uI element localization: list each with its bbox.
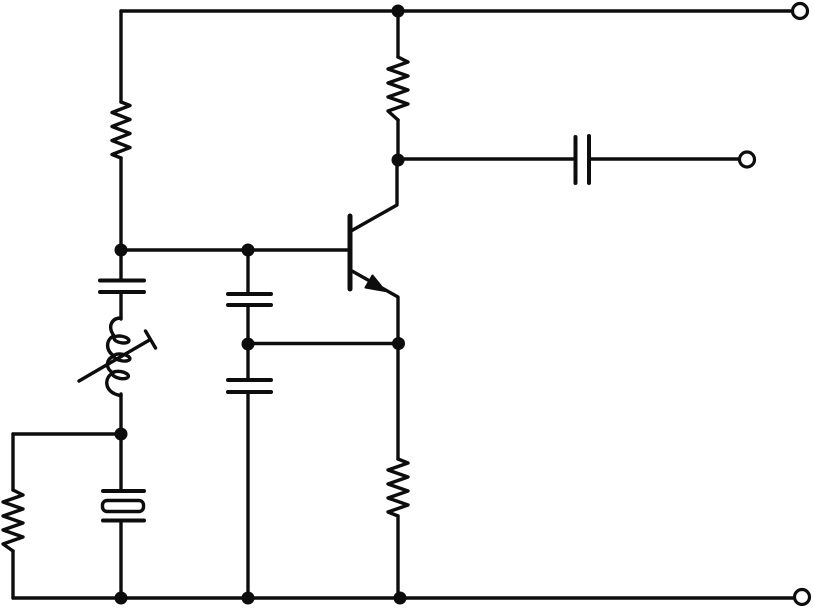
capacitor C1 [100,281,144,293]
capacitor C3 [228,380,271,392]
terminal mid right [740,152,755,167]
wire R4 to bottom rail [11,551,14,598]
wire collector to C4 [398,157,573,160]
crystal Y1 top plate [103,489,144,493]
inductor L1 loop 3 [112,370,129,380]
node bottom-middle junction [242,592,255,605]
capacitor C4 [576,136,590,183]
wire middle node to C3 [246,344,249,378]
node bottom-left junction [115,592,128,605]
wire top rail to R2 [396,11,399,57]
transistor Q1 emitter arrow [366,276,386,292]
node crystal-top junction [115,428,128,441]
wire R2 to collector node [396,120,399,160]
terminal top right [793,4,808,19]
node middle junction [242,338,255,351]
wire C1 to L1 [119,294,122,320]
crystal Y1 bottom plate [103,519,144,523]
wire emitter node to R3 [396,343,399,459]
wire node to crystal [119,434,122,489]
inductor L1 loop 1 [114,335,130,344]
wire C3 to bottom rail [246,394,249,599]
terminal bottom right [795,590,810,605]
node base-left junction [115,244,128,257]
node emitter junction [392,337,405,350]
wire C4 to output terminal [591,157,738,160]
wire middle vertical upper [246,250,249,292]
wire left branch horizontal [13,432,121,435]
wire L1 to crystal node [119,394,122,434]
resistor R2 [388,57,408,120]
inductor L1 loop 2 [114,353,131,362]
resistor R3 [388,459,408,516]
trimmer arrow T-bar [146,331,156,348]
capacitor C2 [228,294,271,305]
node collector junction [392,154,405,167]
wire top rail [121,9,791,12]
wire base horizontal [121,248,347,251]
resistor R1 [112,102,130,158]
transistor Q1 base bar [348,216,353,289]
wire left branch vertical [11,434,14,490]
wire bottom rail [13,596,794,599]
wire left vertical upper [119,11,122,102]
wire middle node to emitter node [248,342,399,345]
trimmer arrow through L1 [79,340,150,381]
wire R1 to base node [119,158,122,250]
node base-middle junction [242,244,255,257]
transistor Q1 collector lead [351,162,397,231]
wire R3 to bottom rail [396,516,399,598]
inductor L1 (adjustable coil) spine [107,318,121,396]
wire crystal to bottom rail [119,522,122,598]
node top rail junction [392,5,405,18]
wire node to C1 [119,250,122,278]
transistor Q1 emitter lead [352,271,398,344]
crystal Y1 body [103,501,144,512]
wire C2 to middle node [246,307,249,345]
resistor R4 [3,490,23,551]
node bottom-right junction [394,592,407,605]
